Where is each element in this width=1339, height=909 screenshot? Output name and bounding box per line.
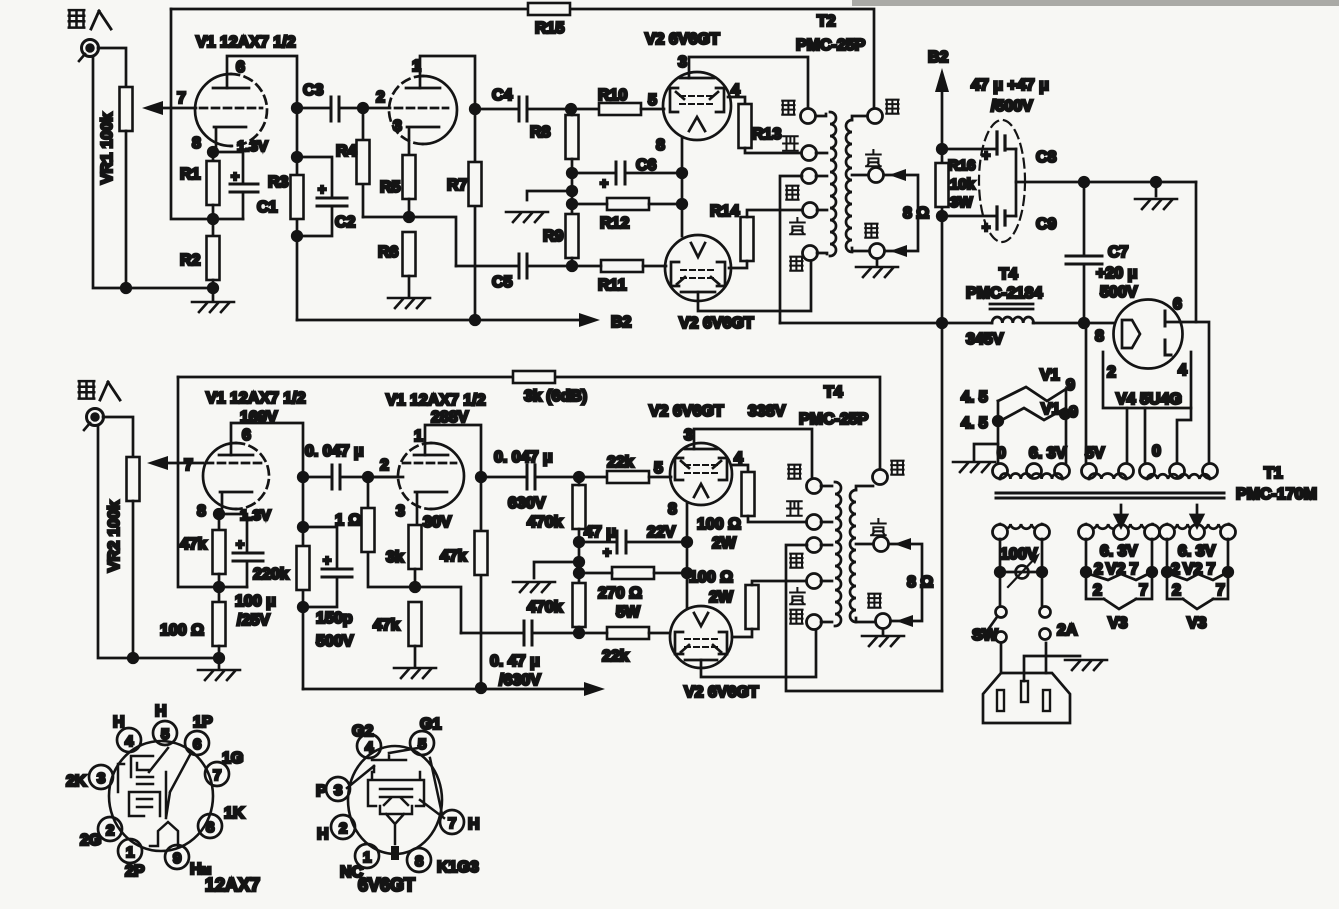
svg-text:2A: 2A (1057, 622, 1078, 639)
wire R8 chain (571, 109, 574, 215)
wire node to 0.47u cap (415, 587, 461, 633)
svg-text:8: 8 (415, 853, 423, 870)
orange' B+ feed wire (786, 545, 942, 691)
V1b plate lead to C4 node (420, 56, 475, 103)
svg-text:T1: T1 (1264, 465, 1283, 482)
svg-text:R3: R3 (268, 174, 289, 191)
capacitor 150p stems (303, 527, 337, 607)
resistor R13 (739, 104, 752, 148)
svg-text:100 μ: 100 μ (235, 593, 276, 610)
label 黄 yellow' (790, 588, 805, 604)
B2 up arrow (935, 68, 949, 92)
arrow into purple (889, 169, 906, 181)
V2a' grid ticks (681, 461, 721, 468)
junction 100ohm bottom (214, 653, 224, 663)
V4 pin2/pin4 box (1103, 352, 1191, 408)
top rail wire with R15 to T2 blue lead (171, 9, 874, 108)
label 黑 (black) (865, 224, 877, 238)
resistor 220k (297, 546, 310, 590)
wire pin4' to 100ohm (731, 465, 748, 472)
T4' primary stubs (821, 486, 832, 622)
V3 heater V shape C (1183, 599, 1213, 609)
junction heater left (993, 416, 1003, 426)
svg-text:2: 2 (339, 820, 347, 837)
svg-text:1.3V: 1.3V (240, 507, 271, 524)
capacitor 0.047u first (332, 465, 340, 489)
svg-text:VR2 100k: VR2 100k (106, 501, 123, 572)
junction 47u left (574, 537, 584, 547)
svg-text:8: 8 (1095, 328, 1104, 345)
mains plug body (983, 673, 1070, 723)
resistor R15 (528, 3, 570, 15)
svg-text:R8: R8 (530, 124, 551, 141)
resistor 470k upper (573, 485, 586, 529)
wire R11 to bottom tube grid (572, 265, 666, 268)
triode V1b' envelope (431, 443, 464, 509)
svg-text:R15: R15 (535, 20, 564, 37)
junction cap right (363, 472, 373, 482)
heater group B drops (1086, 539, 1152, 572)
wire 100ohm lower to pin4' (732, 629, 752, 637)
6V6 pin 1 (355, 844, 379, 868)
svg-text:R1: R1 (180, 166, 201, 183)
scan noise strip top right (852, 0, 1339, 6)
junction R16 top (937, 144, 947, 154)
wire cathode node (212, 148, 215, 161)
junction cap left (298, 472, 308, 482)
ground plug (1065, 660, 1107, 670)
svg-text:V2 6V6GT: V2 6V6GT (645, 31, 720, 48)
svg-text:470k: 470k (527, 514, 563, 531)
junction VR1 bottom (121, 283, 131, 293)
cathode line joining both 6V6 (681, 137, 684, 236)
svg-text:/25V: /25V (237, 612, 270, 629)
capacitor 100u stems (219, 514, 247, 587)
V2a' plate lead to brown' (694, 429, 812, 479)
6V6 pin 8 (407, 848, 431, 872)
V2a plate bar (680, 77, 714, 80)
V2a grid ticks (676, 92, 718, 99)
T2 terminal yellow (803, 203, 818, 218)
wire jack ground drop (93, 58, 213, 288)
wire R2 bottom to ground (212, 280, 215, 300)
svg-text:7: 7 (448, 815, 456, 832)
V2b' plate bar (685, 659, 717, 662)
switch blade (982, 617, 997, 638)
svg-text:1G: 1G (222, 750, 243, 767)
resistor 47k cathode (213, 530, 226, 574)
svg-text:G1: G1 (420, 716, 441, 733)
T4' terminal purple (874, 537, 889, 552)
svg-text:7: 7 (213, 767, 221, 784)
junction R3 bottom (292, 231, 302, 241)
T1 bottom terminals C (1160, 525, 1175, 540)
B2 arrow (579, 313, 600, 327)
ground under 100ohm (198, 670, 240, 680)
svg-text:B2: B2 (611, 314, 632, 331)
V3 box B (1086, 579, 1152, 599)
junction R9 C5 R11 (567, 261, 577, 271)
svg-text:9: 9 (1069, 404, 1078, 421)
T2 terminal black (870, 244, 885, 259)
resistor 270ohm 5W (612, 567, 654, 579)
V2a' beam plates (675, 458, 727, 480)
V2a' cathode notch (694, 484, 708, 497)
capacitor 0.47u/630V (524, 621, 532, 645)
svg-text:4: 4 (1178, 362, 1187, 379)
svg-text:3: 3 (334, 782, 342, 799)
12AX7 pin 6 (185, 731, 209, 755)
svg-text:+: + (318, 181, 326, 197)
ground under R6 (388, 298, 430, 308)
svg-text:2: 2 (380, 457, 389, 474)
wire jack ground drop (98, 427, 219, 658)
junction cathode' (214, 509, 224, 519)
svg-text:H: H (113, 714, 125, 731)
C8 C9 common vertical (1015, 149, 1018, 216)
T2 secondary coil (846, 120, 852, 252)
6V6 pin 2 (331, 815, 355, 839)
V2b' plate lead to green' (701, 630, 816, 677)
resistor R7 lead (474, 109, 477, 320)
svg-text:3W: 3W (950, 194, 973, 211)
svg-text:V2 6V6GT: V2 6V6GT (649, 403, 724, 420)
svg-text:3: 3 (393, 118, 402, 135)
heater left vertical (997, 401, 1000, 464)
svg-text:+: + (600, 175, 608, 191)
V2b grids dashed (681, 270, 715, 278)
svg-text:30V: 30V (423, 514, 452, 531)
ground mid' (513, 582, 555, 592)
svg-text:6: 6 (193, 736, 201, 753)
T2 terminal red (802, 146, 817, 161)
wire 22k to pin5 (649, 476, 671, 479)
wire 0.047 630V (481, 476, 607, 479)
dashed ellipse around C8 C9 (979, 120, 1025, 242)
svg-text:R14: R14 (710, 203, 739, 220)
capacitor C9 (997, 207, 1005, 229)
wire C4 (475, 108, 599, 111)
label 紫 purple' (871, 519, 886, 535)
pin4 drop to HV center (1144, 408, 1147, 462)
heater ground L wire (974, 444, 998, 460)
svg-text:2: 2 (376, 89, 385, 106)
capacitor C3 (331, 97, 339, 121)
T4' terminal black (876, 614, 891, 629)
svg-text:B2: B2 (928, 49, 949, 66)
svg-text:150p: 150p (316, 610, 353, 627)
svg-text:V3: V3 (1187, 615, 1207, 632)
svg-text:C3: C3 (303, 82, 324, 99)
6V6 pin-8 stem (391, 846, 399, 860)
svg-text:T2: T2 (817, 13, 836, 30)
wire junction down to 5V winding (1085, 325, 1088, 464)
junction 47u right (682, 537, 692, 547)
wire C5 (456, 265, 572, 268)
svg-text:C6: C6 (636, 157, 657, 174)
junction R16 bottom (937, 211, 947, 221)
label 输入 (input) bottom (79, 381, 120, 400)
svg-text:V1 12AX7 1/2: V1 12AX7 1/2 (196, 34, 296, 51)
capacitor C8 wire (942, 148, 1016, 151)
svg-text:0: 0 (1152, 443, 1161, 460)
wire R13 bottom to red tap (745, 148, 801, 153)
T1 bottom terminals B (1079, 525, 1094, 540)
12AX7 pin 7 (205, 762, 229, 786)
capacitor C2 (317, 198, 347, 206)
svg-text:C7: C7 (1108, 244, 1129, 261)
svg-text:V4 5U4G: V4 5U4G (1116, 391, 1182, 408)
svg-text:SW: SW (972, 627, 999, 644)
svg-text:V2 6V6GT: V2 6V6GT (679, 315, 754, 332)
junction C4 node (470, 104, 480, 114)
label 绿 (green) (790, 257, 802, 271)
junction var right (1037, 567, 1047, 577)
svg-text:8 Ω: 8 Ω (903, 205, 929, 222)
V4 filament pentagon (1122, 320, 1140, 348)
svg-text:47k: 47k (373, 617, 400, 634)
V1a' grid dashed (206, 462, 266, 465)
T4' terminal yellow (807, 574, 822, 589)
svg-text:3k: 3k (386, 549, 404, 566)
svg-text:6. 3V: 6. 3V (1029, 445, 1067, 462)
T4' terminal orange (807, 538, 822, 553)
junction R12 right (677, 199, 687, 209)
wire 270 ends (579, 572, 687, 575)
V1a plate bar (213, 87, 249, 90)
svg-text:8 Ω: 8 Ω (907, 574, 933, 591)
svg-text:470k: 470k (527, 599, 563, 616)
junction var left (995, 567, 1005, 577)
capacitor C5 (519, 254, 527, 278)
svg-text:22V: 22V (647, 524, 676, 541)
T2 terminal orange (802, 169, 817, 184)
wire 470k lower bottom (578, 627, 581, 633)
triode V1a envelope (195, 74, 231, 146)
svg-text:1 Ω: 1 Ω (335, 512, 361, 529)
junction R3 top (292, 152, 302, 162)
capacitor C8 (997, 132, 1005, 154)
svg-text:8: 8 (668, 501, 677, 518)
svg-text:VR1 100k: VR1 100k (99, 113, 116, 184)
heater zigzag lower (1000, 408, 1064, 421)
6V6 pin 3 (326, 777, 350, 801)
wire C3 left (297, 107, 331, 110)
svg-text:R9: R9 (543, 228, 564, 245)
resistor 100ohm 2W upper (742, 472, 755, 516)
svg-text:R5: R5 (380, 179, 401, 196)
V2b' grids dashed (685, 639, 717, 647)
V1b grid dashed (395, 107, 448, 110)
svg-text:8: 8 (197, 503, 206, 520)
resistor R11 (601, 260, 643, 272)
svg-text:R7: R7 (447, 177, 468, 194)
svg-text:7: 7 (1139, 582, 1148, 599)
V1a plate lead to C3 node (227, 56, 297, 103)
B+ spine lower vertical (941, 323, 944, 691)
resistor R4 (357, 140, 370, 184)
label 茶 (brown) (782, 101, 794, 115)
capacitor C9 wire (942, 215, 1016, 218)
resistor R4 lead (362, 108, 365, 217)
wire R4 bottom horizontal (363, 217, 456, 266)
svg-text:H: H (155, 703, 167, 720)
V2b' cathode notch (694, 613, 708, 626)
junction 47k bottom feedback (214, 582, 224, 592)
capacitor C7 (1066, 256, 1102, 264)
resistor R2 (207, 236, 220, 280)
wire 100ohm bottom (218, 646, 221, 668)
svg-text:3: 3 (684, 427, 693, 444)
junction C left (1162, 567, 1172, 577)
capacitor 47u wire (579, 541, 687, 544)
svg-text:338V: 338V (748, 403, 786, 420)
12AX7 pin 2 (98, 817, 122, 841)
resistor 220k chain (302, 477, 305, 689)
T2 terminal green (803, 246, 818, 261)
ground stub wire (527, 191, 572, 200)
junction VR2 bottom (128, 653, 138, 663)
svg-text:PMC-170M: PMC-170M (1236, 486, 1317, 503)
6V6 pin 7 (440, 810, 464, 834)
svg-text:R13: R13 (752, 126, 781, 143)
wire orange tap to B2 bus (780, 176, 802, 323)
resistor R1 (207, 161, 220, 205)
heater group C drops (1167, 539, 1228, 572)
svg-text:4. 5: 4. 5 (961, 415, 988, 432)
V2b' grid ticks (681, 645, 721, 652)
resistor R12 (607, 198, 649, 210)
wire 470k chain (578, 477, 581, 584)
resistor 22k lower (607, 627, 649, 639)
wire jack to VR1 top (98, 48, 126, 87)
resistor R14 (741, 217, 754, 261)
resistor 47k plate (475, 531, 488, 575)
svg-text:6. 3V: 6. 3V (1100, 543, 1138, 560)
resistor 1 ohm (362, 508, 375, 552)
capacitor C4 (519, 97, 527, 121)
resistor 22k upper (607, 471, 649, 483)
ground stub wire' (534, 562, 579, 578)
resistor 47k plate lead (480, 477, 483, 689)
T2 secondary stubs (852, 116, 870, 251)
svg-text:+: + (603, 544, 611, 560)
T2 terminal purple (869, 168, 884, 183)
feedback top wire with 3k resistor (178, 377, 880, 470)
svg-text:R2: R2 (180, 252, 201, 269)
V1b' grid dashed (403, 462, 456, 465)
pin2 drop to 5V winding (1126, 408, 1129, 462)
wire 100ohm to red' (748, 516, 807, 522)
wire SW to plug (1000, 643, 1003, 673)
svg-text:R10: R10 (598, 87, 627, 104)
8 ohm load bracket (884, 175, 918, 251)
V2b beam plates (671, 262, 725, 286)
junction cathode (208, 147, 218, 157)
12AX7 pin 8 (198, 814, 222, 838)
wire VR1 bottom (125, 131, 128, 288)
svg-text:12AX7: 12AX7 (205, 875, 260, 895)
svg-text:5V: 5V (1085, 445, 1105, 462)
T4' primary coil (835, 482, 841, 626)
wire jack to VR2 (103, 417, 133, 457)
ground heater (953, 462, 995, 472)
triode V1a' envelope (203, 443, 236, 509)
svg-text:7: 7 (1216, 582, 1225, 599)
wire 22k lower to grid (579, 632, 669, 635)
fuse 2A (1040, 607, 1051, 618)
V3 box C (1167, 579, 1228, 599)
svg-text:C1: C1 (257, 199, 278, 216)
resistor 100ohm cathode (213, 602, 226, 646)
T4' secondary coil (850, 490, 856, 622)
svg-text:+20 μ: +20 μ (1096, 265, 1137, 282)
svg-text:47 μ +47 μ: 47 μ +47 μ (971, 77, 1049, 94)
resistor R7 (469, 162, 482, 206)
svg-text:1: 1 (363, 849, 371, 866)
V1a' plate lead (231, 423, 303, 471)
V2a beam plates (670, 88, 724, 112)
svg-text:R12: R12 (600, 215, 629, 232)
wire 3k bottom (414, 569, 417, 587)
svg-text:9: 9 (173, 850, 181, 867)
arrow tap group C (1191, 505, 1203, 527)
plug prong left (997, 690, 1004, 711)
svg-text:5: 5 (161, 726, 169, 743)
arrow into black (890, 245, 907, 257)
svg-text:1: 1 (412, 58, 421, 75)
svg-text:22k: 22k (602, 648, 629, 665)
svg-text:1: 1 (414, 428, 423, 445)
T1 top winding group3 (1147, 474, 1210, 479)
6V6GT pinout envelope (348, 746, 442, 854)
svg-text:R11: R11 (598, 277, 627, 294)
svg-text:V1: V1 (1040, 367, 1060, 384)
8 ohm bracket' (889, 544, 922, 621)
B2 bus of top channel (297, 319, 580, 322)
svg-text:500V: 500V (1100, 284, 1138, 301)
wire R12 ends (572, 203, 682, 206)
svg-text:2: 2 (1093, 582, 1102, 599)
V2a' plate bar (685, 448, 717, 451)
rectifier V4 envelope (1114, 300, 1183, 369)
svg-text:100 Ω: 100 Ω (160, 622, 204, 639)
svg-text:5: 5 (654, 460, 663, 477)
svg-text:220k: 220k (253, 566, 289, 583)
junction heater right (1060, 409, 1070, 419)
svg-text:1P: 1P (193, 714, 213, 731)
svg-text:7: 7 (184, 457, 193, 474)
pin4 side link to terminal (1177, 408, 1191, 462)
svg-text:T4: T4 (824, 384, 843, 401)
junction 0.47u right (574, 628, 584, 638)
svg-text:3: 3 (678, 54, 687, 71)
svg-text:0. 047 μ: 0. 047 μ (494, 449, 553, 466)
arrow purple' (894, 538, 911, 550)
heater right vertical (1065, 389, 1068, 464)
svg-text:4: 4 (125, 733, 134, 750)
wire R1/R2 node (213, 205, 243, 236)
svg-text:+: + (236, 536, 244, 552)
resistor R8 (566, 115, 579, 159)
choke T4 core bars (990, 304, 1033, 309)
svg-text:H: H (468, 816, 480, 833)
label 赤 red' (787, 501, 802, 516)
label 黑 black' (868, 594, 880, 608)
svg-text:100 Ω: 100 Ω (689, 569, 733, 586)
svg-text:P: P (316, 783, 327, 800)
T4' terminal green (807, 615, 822, 630)
